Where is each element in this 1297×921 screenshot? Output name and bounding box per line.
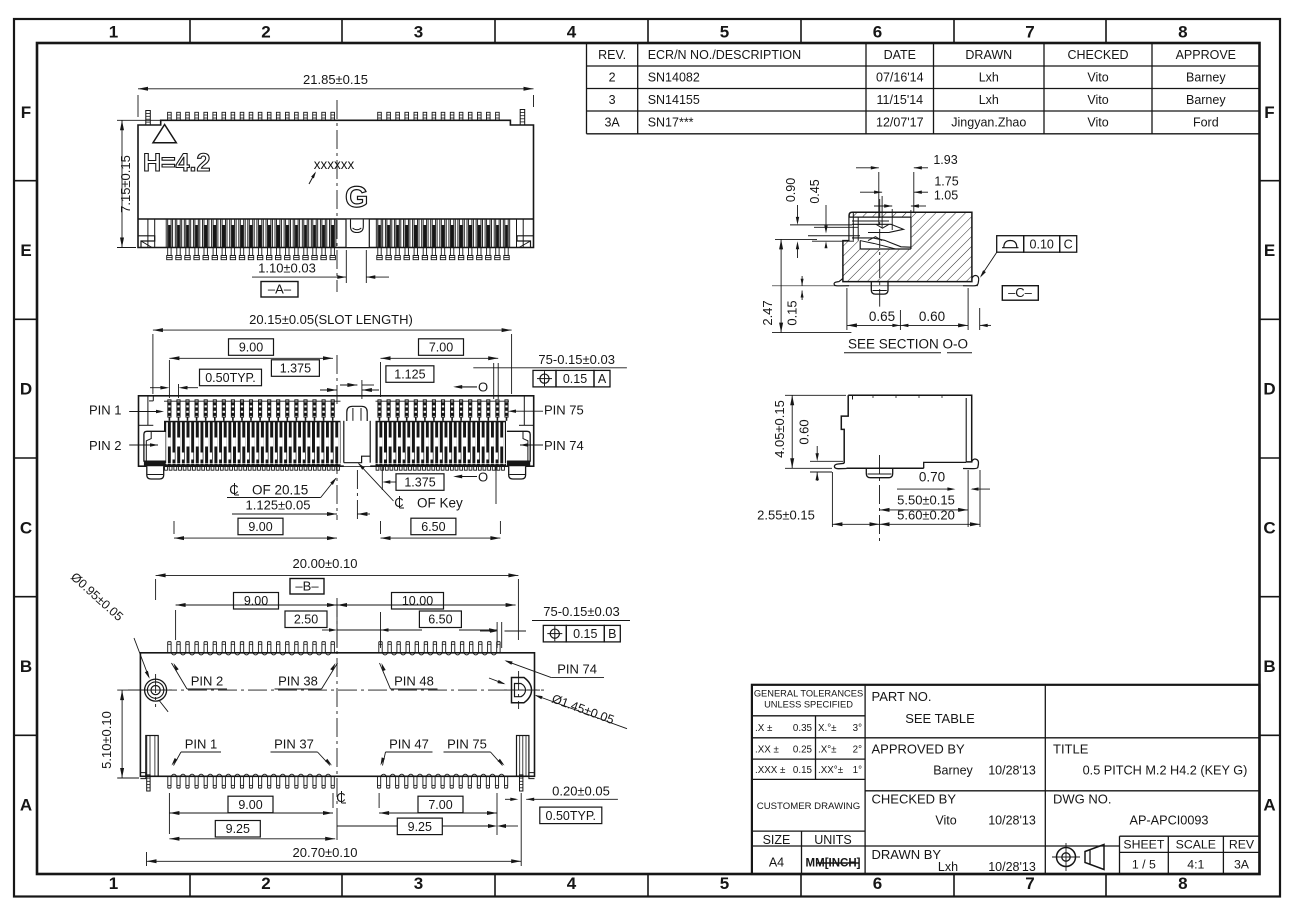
svg-text:PIN 75: PIN 75 [544,403,584,418]
svg-text:11/15'14: 11/15'14 [876,93,923,107]
svg-text:0.15: 0.15 [573,627,597,641]
svg-text:5.60±0.20: 5.60±0.20 [897,508,955,523]
svg-text:0.70: 0.70 [919,470,945,485]
svg-text:1: 1 [109,23,118,42]
svg-text:10/28'13: 10/28'13 [988,860,1036,874]
svg-text:1.75: 1.75 [934,175,958,189]
svg-text:.X ±: .X ± [755,723,773,734]
svg-text:0.5 PITCH M.2 H4.2 (KEY G): 0.5 PITCH M.2 H4.2 (KEY G) [1083,764,1248,778]
svg-text:SN17***: SN17*** [648,116,694,130]
svg-text:20.15±0.05(SLOT LENGTH): 20.15±0.05(SLOT LENGTH) [249,312,413,327]
svg-text:SEE TABLE: SEE TABLE [905,711,975,726]
svg-text:PIN 75: PIN 75 [447,737,487,752]
svg-text:0.50TYP.: 0.50TYP. [546,809,597,823]
svg-text:.XX°±: .XX°± [818,765,844,776]
svg-text:C: C [20,518,32,537]
svg-text:5.10±0.10: 5.10±0.10 [99,711,114,769]
svg-text:Lxh: Lxh [979,71,999,85]
svg-text:X.°±: X.°± [818,723,837,734]
svg-text:6: 6 [873,23,882,42]
svg-text:APPROVED BY: APPROVED BY [872,742,966,757]
svg-text:07/16'14: 07/16'14 [876,71,924,85]
svg-text:0.60: 0.60 [797,419,812,444]
svg-text:Lxh: Lxh [979,93,999,107]
svg-text:F: F [1264,103,1274,122]
svg-text:APPROVE: APPROVE [1176,48,1236,62]
svg-text:PIN 37: PIN 37 [274,737,314,752]
svg-text:O: O [478,380,488,395]
svg-text:B: B [1263,657,1275,676]
svg-text:–C–: –C– [1008,285,1033,300]
svg-text:1.05: 1.05 [934,189,958,203]
svg-text:0.60: 0.60 [919,309,945,324]
svg-text:1.125: 1.125 [394,367,425,381]
svg-text:10.00: 10.00 [402,594,433,608]
svg-text:D: D [20,380,32,399]
svg-text:Lxh: Lxh [938,860,958,874]
svg-text:CHECKED BY: CHECKED BY [872,792,957,807]
svg-text:3A: 3A [604,116,620,130]
svg-text:GENERAL TOLERANCES: GENERAL TOLERANCES [754,689,863,699]
svg-text:UNLESS SPECIFIED: UNLESS SPECIFIED [764,700,853,710]
svg-text:1: 1 [109,874,118,893]
svg-text:0.90: 0.90 [784,178,798,202]
svg-text:0.10: 0.10 [1030,237,1054,251]
svg-text:F: F [21,103,31,122]
svg-text:O: O [478,470,488,485]
svg-text:3°: 3° [853,723,862,734]
svg-text:Barney: Barney [933,764,973,778]
svg-text:4: 4 [567,874,577,893]
svg-text:5.50±0.15: 5.50±0.15 [897,493,955,508]
svg-text:G: G [345,181,368,214]
svg-text:xxxxxx: xxxxxx [314,157,355,172]
svg-text:4: 4 [567,23,577,42]
svg-text:7.00: 7.00 [428,798,452,812]
svg-text:PIN 2: PIN 2 [191,674,224,689]
svg-text:SN14155: SN14155 [648,93,700,107]
svg-text:Vito: Vito [1087,116,1108,130]
svg-text:PIN 48: PIN 48 [394,674,434,689]
svg-text:0.15: 0.15 [793,765,813,776]
svg-text:12/07'17: 12/07'17 [876,116,924,130]
svg-text:CUSTOMER DRAWING: CUSTOMER DRAWING [757,801,860,812]
svg-text:3A: 3A [1234,858,1250,872]
svg-text:9.25: 9.25 [408,820,432,834]
svg-text:REV.: REV. [598,48,626,62]
svg-text:OF Key: OF Key [417,496,463,511]
svg-text:2°: 2° [853,745,862,756]
svg-text:0.15: 0.15 [563,372,587,386]
svg-text:.XX ±: .XX ± [755,745,780,756]
svg-text:0.45: 0.45 [808,179,822,203]
svg-text:7.15±0.15: 7.15±0.15 [118,155,133,213]
svg-text:ECR/N NO./DESCRIPTION: ECR/N NO./DESCRIPTION [648,48,802,62]
svg-text:.X°±: .X°± [818,745,837,756]
svg-text:8: 8 [1178,23,1187,42]
svg-text:0.65: 0.65 [869,309,895,324]
svg-text:PIN 2: PIN 2 [89,438,122,453]
svg-text:20.70±0.10: 20.70±0.10 [293,845,358,860]
svg-text:1°: 1° [853,765,862,776]
svg-text:7: 7 [1025,874,1034,893]
svg-text:9.00: 9.00 [238,798,262,812]
svg-text:1.375: 1.375 [404,475,435,489]
svg-text:21.85±0.15: 21.85±0.15 [303,72,368,87]
svg-text:Vito: Vito [1087,71,1108,85]
svg-text:A: A [598,372,607,386]
svg-text:0.15: 0.15 [785,300,800,325]
svg-text:9.00: 9.00 [244,594,268,608]
svg-text:DATE: DATE [884,48,916,62]
svg-text:E: E [20,241,31,260]
svg-text:0.20±0.05: 0.20±0.05 [552,784,610,799]
svg-text:C: C [1263,518,1275,537]
svg-text:OF 20.15: OF 20.15 [252,483,308,498]
svg-text:0.25: 0.25 [793,745,813,756]
svg-text:6.50: 6.50 [428,613,452,627]
svg-text:.XXX ±: .XXX ± [755,765,786,776]
svg-text:PIN 74: PIN 74 [557,662,597,677]
svg-text:4:1: 4:1 [1187,858,1204,872]
svg-text:6: 6 [873,874,882,893]
svg-text:Ford: Ford [1193,116,1219,130]
svg-text:CHECKED: CHECKED [1067,48,1128,62]
svg-text:PIN 1: PIN 1 [185,737,218,752]
svg-text:4.05±0.15: 4.05±0.15 [772,400,787,458]
svg-text:–A–: –A– [268,282,292,297]
svg-text:SEE SECTION O-O: SEE SECTION O-O [848,337,968,352]
svg-text:8: 8 [1178,874,1187,893]
svg-text:5: 5 [720,23,729,42]
svg-text:SN14082: SN14082 [648,71,700,85]
svg-text:H=4.2: H=4.2 [143,149,210,177]
svg-text:PIN 47: PIN 47 [389,737,429,752]
svg-text:Vito: Vito [1087,93,1108,107]
svg-text:7: 7 [1025,23,1034,42]
svg-text:1.375: 1.375 [280,361,311,375]
svg-text:7.00: 7.00 [429,340,453,354]
svg-text:Jingyan.Zhao: Jingyan.Zhao [951,116,1026,130]
svg-text:DRAWN BY: DRAWN BY [872,847,942,862]
svg-text:–B–: –B– [295,579,319,594]
svg-text:6.50: 6.50 [421,520,445,534]
svg-text:Barney: Barney [1186,93,1226,107]
svg-text:D: D [1263,380,1275,399]
svg-text:2: 2 [609,71,616,85]
svg-text:AP-APCI0093: AP-APCI0093 [1130,814,1209,828]
svg-text:PIN 38: PIN 38 [278,674,318,689]
svg-text:75-0.15±0.03: 75-0.15±0.03 [543,604,620,619]
svg-text:PIN 74: PIN 74 [544,438,584,453]
svg-text:3: 3 [414,23,423,42]
svg-text:10/28'13: 10/28'13 [988,814,1036,828]
svg-text:2: 2 [261,874,270,893]
svg-text:A: A [20,796,32,815]
svg-text:A4: A4 [769,856,784,870]
svg-text:Vito: Vito [935,814,956,828]
svg-text:DWG NO.: DWG NO. [1053,792,1112,807]
svg-text:A: A [1263,796,1275,815]
svg-text:1.10±0.03: 1.10±0.03 [258,261,316,276]
svg-text:1 / 5: 1 / 5 [1132,858,1156,872]
svg-text:9.25: 9.25 [226,822,250,836]
svg-text:2.50: 2.50 [294,613,318,627]
svg-text:REV: REV [1229,838,1255,852]
svg-text:SIZE: SIZE [763,833,791,847]
svg-text:2.55±0.15: 2.55±0.15 [757,508,815,523]
svg-text:E: E [1264,241,1275,260]
svg-text:9.00: 9.00 [248,520,272,534]
svg-text:Barney: Barney [1186,71,1226,85]
svg-text:TITLE: TITLE [1053,742,1089,757]
svg-text:C: C [1064,237,1073,251]
svg-text:75-0.15±0.03: 75-0.15±0.03 [538,352,615,367]
svg-text:3: 3 [609,93,616,107]
svg-text:9.00: 9.00 [239,340,263,354]
svg-text:2: 2 [261,23,270,42]
svg-text:SCALE: SCALE [1176,838,1216,852]
svg-text:PIN 1: PIN 1 [89,403,122,418]
svg-text:UNITS: UNITS [814,833,852,847]
svg-text:B: B [608,627,616,641]
svg-text:0.35: 0.35 [793,723,813,734]
svg-text:0.50TYP.: 0.50TYP. [205,371,256,385]
svg-text:PART NO.: PART NO. [872,689,932,704]
svg-text:2.47: 2.47 [760,300,775,325]
svg-text:5: 5 [720,874,729,893]
svg-text:1.125±0.05: 1.125±0.05 [246,498,311,513]
svg-text:SHEET: SHEET [1123,838,1164,852]
svg-text:20.00±0.10: 20.00±0.10 [293,556,358,571]
svg-text:10/28'13: 10/28'13 [988,764,1036,778]
svg-text:1.93: 1.93 [933,153,957,167]
svg-text:3: 3 [414,874,423,893]
svg-text:DRAWN: DRAWN [965,48,1012,62]
svg-text:B: B [20,657,32,676]
